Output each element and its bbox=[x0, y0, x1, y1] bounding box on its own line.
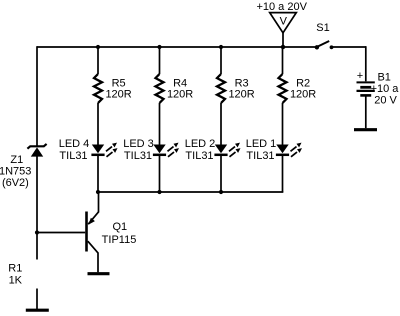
LED 1 TIL31 bbox=[276, 143, 302, 157]
wire battery top bbox=[365, 46, 367, 81]
transistor Q1 bbox=[87, 212, 99, 273]
svg-text:+10 a 20V: +10 a 20V bbox=[256, 1, 307, 13]
svg-text:TIL31: TIL31 bbox=[185, 150, 213, 162]
svg-text:TIL31: TIL31 bbox=[246, 150, 274, 162]
node R3 top junction dot bbox=[219, 45, 223, 49]
ground below collector bbox=[88, 272, 110, 275]
label LED 2 TIL31 bbox=[185, 138, 216, 162]
label R1 1K bbox=[8, 262, 22, 286]
resistor R4 bbox=[156, 74, 164, 103]
wire emitter up to bottom bus bbox=[98, 192, 100, 213]
label LED 4 TIL31 bbox=[59, 138, 90, 162]
label Z1 1N753 (6V2) bbox=[0, 154, 31, 189]
wire R3 to LED2 bbox=[220, 103, 222, 145]
wire top bus right segment (switch to battery) bbox=[332, 46, 366, 48]
zener diode Z1 bbox=[27, 144, 46, 157]
wire battery to ground bbox=[365, 97, 367, 129]
svg-text:V: V bbox=[280, 16, 288, 28]
node R5 top junction dot bbox=[96, 45, 100, 49]
LED 3 TIL31 bbox=[153, 143, 179, 157]
LED 2 TIL31 bbox=[214, 143, 240, 157]
wire R1 to ground bbox=[36, 289, 38, 310]
label B1 +10 a 20 V bbox=[371, 72, 400, 107]
svg-text:+10 a: +10 a bbox=[371, 83, 400, 95]
svg-text:+: + bbox=[357, 70, 363, 82]
svg-text:120R: 120R bbox=[228, 89, 254, 101]
label battery plus bbox=[357, 70, 363, 82]
svg-text:120R: 120R bbox=[167, 89, 193, 101]
label R5 120R bbox=[105, 78, 131, 101]
svg-text:LED 3: LED 3 bbox=[123, 138, 154, 150]
svg-text:S1: S1 bbox=[316, 22, 329, 34]
wire LED3 to bottom bus bbox=[159, 156, 161, 192]
svg-text:LED 4: LED 4 bbox=[59, 138, 90, 150]
node power junction dot bbox=[281, 45, 285, 49]
wire R2 to LED1 bbox=[282, 103, 284, 145]
label +10 a 20V bbox=[256, 1, 307, 13]
svg-text:(6V2): (6V2) bbox=[2, 177, 29, 189]
wire zener anode down to base node bbox=[36, 156, 38, 260]
resistor R2 bbox=[279, 74, 287, 103]
svg-text:R1: R1 bbox=[8, 262, 22, 274]
switch S1 bbox=[315, 41, 334, 50]
wire bus to R5 bbox=[97, 47, 99, 74]
wire bottom LED bus bbox=[98, 190, 283, 193]
wire bus to R2 bbox=[282, 47, 284, 74]
svg-text:20 V: 20 V bbox=[374, 95, 397, 107]
label S1 bbox=[316, 22, 329, 34]
label LED 3 TIL31 bbox=[123, 138, 154, 162]
node bottom bus dot LED3 bbox=[157, 190, 161, 194]
node base junction dot bbox=[35, 230, 39, 234]
wire R4 to LED3 bbox=[159, 103, 161, 145]
label R4 120R bbox=[167, 78, 193, 101]
node bottom bus dot LED4 bbox=[96, 190, 100, 194]
wire top bus left segment bbox=[37, 46, 316, 48]
svg-text:LED 1: LED 1 bbox=[246, 138, 277, 150]
wire R5 to LED4 bbox=[97, 103, 99, 145]
label R2 120R bbox=[290, 78, 316, 101]
svg-text:120R: 120R bbox=[290, 89, 316, 101]
LED 4 TIL31 bbox=[91, 143, 117, 157]
label LED 1 TIL31 bbox=[246, 138, 277, 162]
resistor R5 bbox=[94, 74, 102, 103]
wire LED4 to bottom bus bbox=[97, 156, 99, 192]
svg-text:B1: B1 bbox=[377, 72, 390, 84]
svg-text:TIL31: TIL31 bbox=[124, 150, 152, 162]
svg-text:TIP115: TIP115 bbox=[102, 234, 137, 246]
node R2 top junction dot bbox=[281, 45, 285, 49]
power supply symbol +10 a 20V bbox=[270, 13, 297, 33]
svg-text:TIL31: TIL31 bbox=[59, 150, 87, 162]
svg-text:1N753: 1N753 bbox=[0, 166, 31, 178]
resistor R3 bbox=[217, 74, 225, 103]
wire LED2 to bottom bus bbox=[220, 156, 222, 192]
svg-text:Q1: Q1 bbox=[112, 221, 127, 233]
wire LED1 to bottom bus bbox=[282, 156, 284, 192]
ground below R1 bbox=[26, 309, 49, 312]
svg-text:120R: 120R bbox=[105, 89, 131, 101]
wire bus to R3 bbox=[220, 47, 222, 74]
svg-text:Z1: Z1 bbox=[10, 154, 23, 166]
svg-text:LED 2: LED 2 bbox=[185, 138, 216, 150]
node bottom bus dot LED2 bbox=[219, 190, 223, 194]
node R4 top junction dot bbox=[157, 45, 161, 49]
battery B1 bbox=[357, 82, 375, 95]
label Q1 TIP115 bbox=[102, 221, 137, 246]
wire power symbol to bus bbox=[282, 33, 284, 47]
wire base from node to transistor bbox=[37, 232, 85, 234]
ground below battery bbox=[354, 128, 377, 131]
wire bus to R4 bbox=[159, 47, 161, 74]
wire left vertical from bus to zener cathode bbox=[36, 46, 38, 146]
label R3 120R bbox=[228, 78, 254, 101]
svg-text:1K: 1K bbox=[9, 274, 23, 286]
